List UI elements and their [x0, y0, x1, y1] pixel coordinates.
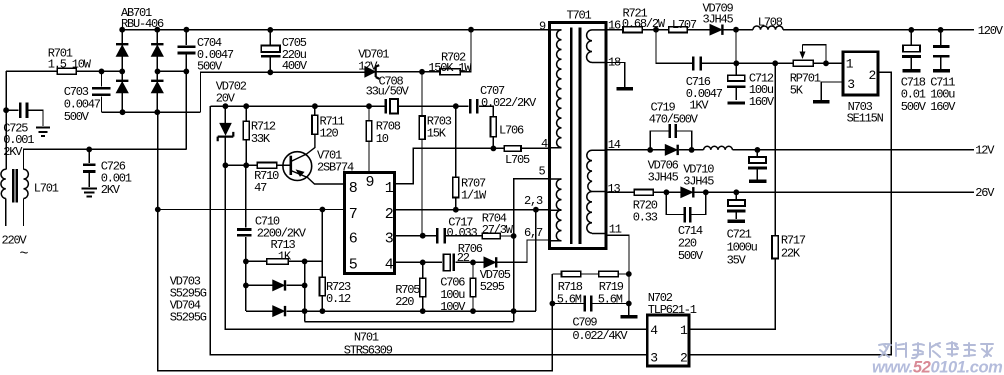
- wire R723 column: [321, 210, 323, 311]
- wire V701 emitter lead to N701 pin 8: [291, 171, 345, 185]
- diode VD703: [273, 280, 285, 290]
- ground for C712: [728, 101, 745, 104]
- diode VD705: [484, 257, 496, 267]
- wire VD703 row: [246, 284, 305, 286]
- svg-text:7: 7: [349, 206, 357, 223]
- resistor R710: [257, 163, 276, 169]
- svg-text:120V: 120V: [978, 24, 1004, 38]
- wire AC2 column-2 to C704 column: [158, 70, 187, 72]
- svg-text:14: 14: [608, 138, 621, 152]
- wire C704 column: [185, 30, 187, 72]
- svg-text:L706: L706: [499, 123, 524, 137]
- svg-text:2,3: 2,3: [524, 194, 543, 208]
- svg-text:3: 3: [650, 350, 657, 365]
- svg-text:35V: 35V: [727, 253, 747, 267]
- svg-text:1: 1: [385, 180, 394, 197]
- wire C716 to C712 junction: [735, 30, 737, 64]
- svg-text:160V: 160V: [749, 95, 775, 109]
- svg-text:10: 10: [376, 132, 389, 146]
- capacitor C705 electrolytic: [261, 45, 281, 56]
- wire C710 column: [245, 165, 247, 311]
- svg-text:S5295G: S5295G: [170, 311, 207, 325]
- wire sense stub row: [305, 311, 514, 322]
- svg-text:1K: 1K: [278, 250, 292, 264]
- wire -DC riser to row: [201, 72, 365, 112]
- wire R712 column: [245, 106, 247, 165]
- inductor L701 right winding: [24, 169, 29, 198]
- svg-text:5295: 5295: [480, 280, 505, 294]
- capacitor C707: [470, 99, 477, 114]
- capacitor C709: [585, 295, 592, 311]
- diode VD709: [710, 25, 722, 35]
- wire N702 pin4 feedback column and row: [225, 165, 647, 329]
- wire N701 pin 7 row: [158, 209, 345, 211]
- svg-text:2KV: 2KV: [3, 145, 23, 159]
- capacitor C716: [693, 57, 701, 71]
- wire L701 right bottom lead: [23, 199, 25, 227]
- svg-text:L708: L708: [758, 15, 783, 29]
- svg-text:5K: 5K: [790, 84, 804, 98]
- resistor R705: [420, 278, 426, 296]
- potentiometer RP701 arrow: [800, 52, 806, 60]
- svg-text:220: 220: [395, 295, 414, 309]
- wire C709 row: [552, 303, 628, 305]
- svg-text:26V: 26V: [975, 186, 995, 200]
- ground for C726: [81, 188, 97, 196]
- svg-text:~: ~: [20, 246, 29, 263]
- svg-text:27/3W: 27/3W: [482, 223, 514, 237]
- inductor L701 core: [13, 169, 17, 203]
- svg-text:12V: 12V: [358, 59, 378, 73]
- svg-text:12V: 12V: [975, 143, 995, 157]
- svg-text:1.5 10W: 1.5 10W: [48, 58, 92, 72]
- wire C711 column: [940, 30, 942, 69]
- svg-text:3JH45: 3JH45: [683, 175, 714, 189]
- svg-text:1: 1: [846, 56, 854, 71]
- zener diode VD701: [365, 65, 380, 79]
- svg-text:5: 5: [349, 256, 358, 273]
- wire C725 row: [6, 110, 43, 126]
- capacitor C719: [670, 124, 676, 138]
- wire N701 pin 4 row with C706: [395, 261, 485, 263]
- svg-text:0.12: 0.12: [326, 292, 351, 306]
- svg-text:4: 4: [541, 137, 548, 151]
- resistor R703: [419, 116, 425, 139]
- svg-text:33K: 33K: [251, 132, 271, 146]
- transformer T701 winding pins 5 to 2,3 to 6,7: [549, 179, 561, 241]
- wire VD701 cathode to R702: [377, 71, 441, 73]
- wire T701 pin 5 column: [514, 179, 550, 322]
- wire primary ground frame to N702 pin 3: [210, 106, 647, 355]
- svg-text:0.68/2W: 0.68/2W: [622, 17, 666, 31]
- svg-text:150K 1W: 150K 1W: [428, 61, 472, 75]
- svg-text:0.033: 0.033: [447, 226, 478, 240]
- resistor R723: [320, 277, 326, 295]
- wire VCC drive row: [210, 106, 493, 148]
- diode VD710: [681, 187, 693, 197]
- capacitor C718 electrolytic: [902, 45, 921, 56]
- svg-text:3: 3: [847, 77, 854, 92]
- resistor R719: [599, 271, 618, 277]
- wire C714 bracket: [666, 192, 705, 214]
- svg-text:2: 2: [680, 350, 687, 365]
- bridge rectifier diode bottom-left: [116, 81, 128, 93]
- wire N703 pin 2 feedback down to N702 pin 2: [689, 72, 891, 355]
- diode VD706: [665, 145, 677, 155]
- transformer T701 box: [549, 23, 606, 249]
- wire R713 row: [246, 260, 323, 262]
- wire R718 R719 row: [552, 273, 628, 275]
- capacitor C711: [933, 47, 950, 57]
- wire -DC bottom rail of bridge: [102, 111, 201, 113]
- resistor R711: [312, 115, 318, 134]
- transistor V701: [283, 152, 312, 181]
- wire C719 bracket: [650, 131, 691, 150]
- wire bridge column 1: [121, 30, 123, 113]
- capacitor C712 electrolytic: [727, 75, 746, 86]
- svg-text:N701: N701: [354, 330, 379, 344]
- svg-text:5.6M: 5.6M: [598, 292, 623, 306]
- svg-text:22: 22: [457, 251, 470, 265]
- svg-text:3JH45: 3JH45: [703, 13, 734, 27]
- wire R718 left drop: [551, 274, 553, 304]
- inductor L705: [504, 146, 521, 152]
- svg-text:0.022/2KV: 0.022/2KV: [481, 96, 537, 110]
- svg-text:16: 16: [608, 18, 621, 32]
- inductor L706: [491, 117, 497, 137]
- wire R703 column: [421, 72, 423, 236]
- bridge rectifier AB701 diode top-left: [116, 44, 128, 56]
- svg-text:2: 2: [869, 68, 876, 83]
- wire AC live input to R701: [6, 70, 101, 72]
- resistor R701: [57, 68, 76, 74]
- wire AC1 node to bridge column 1: [102, 70, 123, 72]
- transformer T701 core: [571, 28, 580, 245]
- svg-text:T701: T701: [567, 9, 592, 23]
- IC N702 box: [647, 315, 689, 366]
- svg-text:6: 6: [349, 231, 358, 248]
- svg-text:0.022/4KV: 0.022/4KV: [572, 329, 628, 343]
- junction dots: [99, 69, 105, 75]
- svg-text:500V: 500V: [901, 100, 927, 114]
- capacitor C714: [685, 207, 691, 222]
- capacitor C717: [437, 228, 444, 243]
- wire R706 column: [472, 262, 474, 311]
- potentiometer RP701 body: [793, 60, 813, 66]
- svg-text:47: 47: [254, 181, 267, 195]
- wire 12V rail: [606, 149, 974, 151]
- svg-text:11: 11: [609, 223, 622, 237]
- svg-text:RBU-406: RBU-406: [121, 17, 164, 31]
- inductor on 12V rail: [704, 146, 733, 150]
- inductor L708: [753, 26, 783, 30]
- wire T701 pin 11 drop: [606, 235, 629, 303]
- svg-text:0.33: 0.33: [633, 211, 658, 225]
- wire R713 VD703 right column: [304, 261, 306, 311]
- resistor R721: [623, 27, 642, 33]
- svg-text:8: 8: [349, 180, 358, 197]
- wire R707 column: [455, 106, 457, 210]
- svg-text:3JH45: 3JH45: [648, 171, 679, 185]
- svg-text:400V: 400V: [282, 59, 308, 73]
- svg-text:5: 5: [539, 165, 546, 179]
- ground for C709: [620, 315, 637, 318]
- svg-text:33u/50V: 33u/50V: [366, 85, 410, 99]
- wire 26V rail: [606, 191, 974, 193]
- capacitor 12V filter electrolytic: [748, 157, 767, 168]
- capacitor C725: [20, 103, 27, 119]
- wire N703 pin 3 to ground: [821, 82, 843, 100]
- wire VD705 cathode to T701 pins 6,7: [497, 240, 549, 262]
- svg-text:TLP621-1: TLP621-1: [648, 303, 697, 317]
- svg-text:www.520101.com: www.520101.com: [872, 359, 1002, 375]
- resistor R712: [243, 121, 249, 140]
- wire N701 pin 2 row to T701 pins 2,3: [395, 209, 550, 211]
- svg-text:1KV: 1KV: [689, 99, 709, 113]
- resistor R718: [562, 271, 581, 277]
- svg-text:4: 4: [650, 323, 658, 338]
- ground for C718: [902, 69, 920, 72]
- wire R702 right end up to +DC rail: [460, 30, 471, 72]
- wire V701 base row: [225, 164, 290, 166]
- wire RP701 wiper: [803, 45, 827, 64]
- ground for C725: [36, 128, 50, 136]
- wire R721 junction drop to C716 row: [656, 30, 843, 64]
- svg-text:9: 9: [539, 19, 546, 33]
- wire R717 column to N702 pin 1: [689, 63, 775, 329]
- capacitor C704: [178, 47, 196, 53]
- ground for N703 pin 3: [813, 100, 829, 103]
- svg-text:100V: 100V: [440, 300, 466, 314]
- wire N701 pin 1 to pin4 T701 row: [395, 148, 550, 183]
- svg-text:120: 120: [320, 126, 339, 140]
- svg-text:1/1W: 1/1W: [461, 189, 487, 203]
- inductor L701 left winding: [1, 169, 6, 198]
- svg-text:160V: 160V: [930, 100, 956, 114]
- svg-text:20V: 20V: [216, 92, 236, 106]
- wire C726 column: [88, 149, 90, 186]
- capacitor C708 electrolytic: [386, 99, 398, 114]
- resistor R702: [440, 69, 460, 75]
- transformer T701 primary winding pins 9-4: [549, 30, 561, 148]
- svg-text:2SB774: 2SB774: [317, 160, 354, 174]
- IC N701 box: [345, 172, 395, 273]
- wire AC2 row to L701 right winding: [24, 149, 187, 169]
- svg-text:470/500V: 470/500V: [649, 113, 699, 127]
- capacitor C726: [83, 165, 96, 172]
- transformer T701 secondary winding pins 14-13-11: [587, 150, 606, 233]
- svg-text:STRS6309: STRS6309: [344, 343, 393, 357]
- ground for C711: [933, 69, 950, 72]
- svg-text:22K: 22K: [781, 246, 801, 260]
- ground for C721: [728, 220, 745, 224]
- resistor R713: [267, 259, 289, 265]
- wire +DC top rail to T701 pin 9: [122, 29, 549, 31]
- wire source sense row: [246, 310, 536, 312]
- IC N703 box: [843, 52, 878, 95]
- wire 12V filter cap column: [756, 150, 758, 180]
- resistor R708: [366, 121, 372, 141]
- svg-text:2: 2: [385, 206, 393, 223]
- wire bridge column 2: [156, 30, 158, 113]
- wire T701 pins 2,3 ground drop: [535, 210, 537, 311]
- svg-text:500V: 500V: [197, 59, 223, 73]
- svg-text:2KV: 2KV: [101, 183, 121, 197]
- svg-text:500V: 500V: [64, 110, 90, 124]
- wire C712 column: [735, 63, 737, 100]
- diode VD704: [273, 306, 285, 316]
- capacitor C721 electrolytic: [727, 200, 746, 211]
- wire AC2 vertical down to L701 row: [185, 71, 187, 149]
- wire R708 column to N701 pin 9: [368, 106, 370, 172]
- resistor R717: [772, 236, 778, 259]
- inductor L707: [669, 27, 688, 33]
- zener diode VD702: [218, 123, 234, 141]
- svg-text:15K: 15K: [427, 127, 447, 141]
- watermark chinese characters: [879, 342, 993, 358]
- bridge rectifier diode top-right: [151, 44, 163, 56]
- resistor R704: [482, 233, 500, 239]
- wire V701 collector lead: [291, 134, 315, 161]
- wire R705 column: [422, 262, 424, 311]
- transformer T701 secondary winding pins 16-18: [587, 30, 606, 63]
- svg-text:L705: L705: [505, 153, 530, 167]
- capacitor C706 electrolytic: [443, 254, 454, 272]
- wire L701 left lead: [5, 71, 7, 226]
- bridge rectifier diode bottom-right: [151, 81, 163, 93]
- resistor R707: [453, 177, 459, 197]
- wire R711 column: [314, 106, 316, 115]
- svg-text:SE115N: SE115N: [847, 112, 884, 126]
- ground for T701 pin 18: [617, 87, 633, 90]
- ground for 12V filter cap: [749, 179, 766, 182]
- resistor R706: [470, 278, 476, 296]
- svg-text:9: 9: [366, 174, 374, 191]
- wire 120V rail: [606, 29, 974, 31]
- svg-text:1: 1: [680, 323, 688, 338]
- wire C721 column: [735, 192, 737, 219]
- wire VD702 column: [224, 106, 226, 165]
- wire T701 pin 18 to ground: [606, 63, 625, 88]
- wire N701 pin 3 row: [395, 235, 514, 237]
- svg-text:18: 18: [608, 56, 621, 70]
- wire C703 column: [101, 71, 103, 112]
- svg-text:4: 4: [385, 256, 394, 273]
- wire C718 column: [910, 30, 912, 69]
- svg-text:1000u: 1000u: [727, 240, 758, 254]
- wire -DC down column and bottom return row: [158, 112, 553, 371]
- svg-text:C709: C709: [572, 316, 597, 330]
- svg-text:5.6M: 5.6M: [557, 292, 582, 306]
- wire C705 column: [269, 30, 271, 72]
- svg-text:13: 13: [608, 182, 621, 196]
- svg-text:500V: 500V: [678, 249, 704, 263]
- svg-text:C721: C721: [727, 227, 752, 241]
- wire C709 right ground drop: [628, 304, 630, 316]
- svg-text:L707: L707: [672, 18, 697, 32]
- svg-text:L701: L701: [34, 182, 59, 196]
- svg-text:6,7: 6,7: [524, 226, 543, 240]
- resistor R720: [634, 190, 653, 196]
- capacitor C703: [92, 88, 111, 95]
- svg-text:3: 3: [385, 231, 394, 248]
- capacitor C710: [237, 230, 252, 236]
